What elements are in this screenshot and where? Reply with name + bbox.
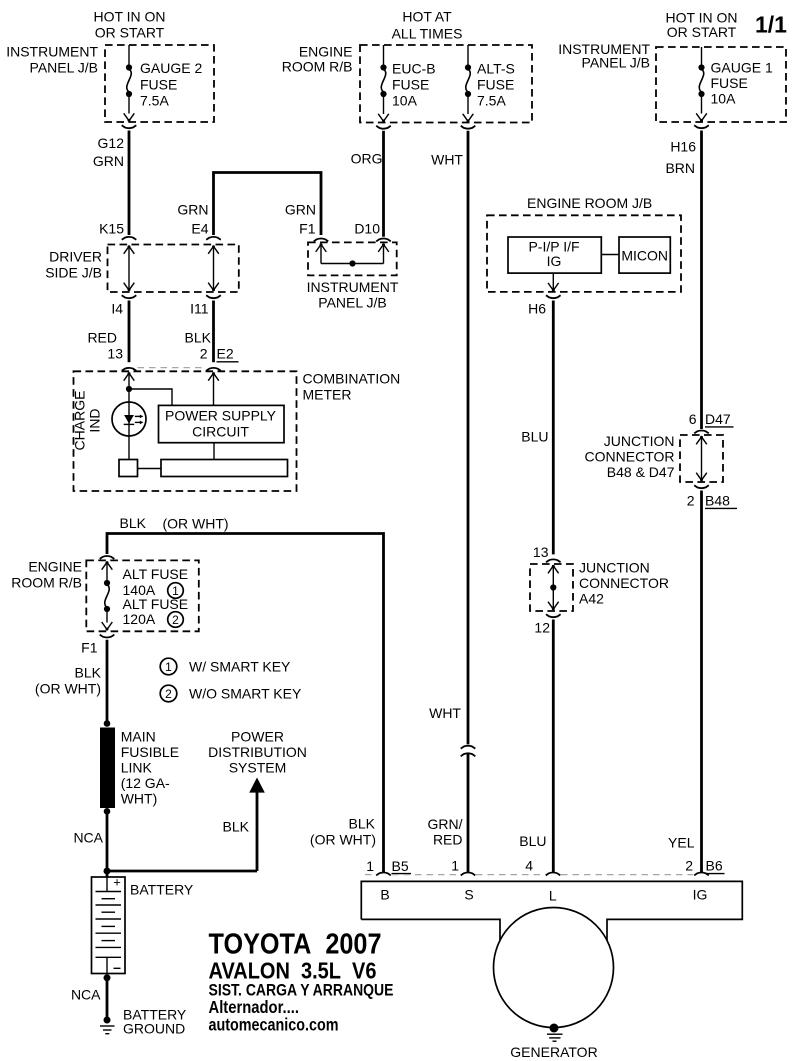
svg-text:LINK: LINK: [121, 760, 153, 776]
junction block box: engine room R/B (lower): [86, 560, 199, 631]
inline connector break on WHT wire: [461, 746, 476, 757]
label BATTERY GROUND: [123, 1007, 187, 1037]
label ENGINE ROOM R/B (lower): [11, 559, 82, 591]
junction block box: instrument panel J/B (top right): [656, 47, 786, 122]
generator body circle: [494, 908, 614, 1028]
wire P-I/P out with arrow: [548, 273, 559, 291]
svg-text:DISTRIBUTION: DISTRIBUTION: [208, 744, 307, 760]
svg-text:F1: F1: [81, 640, 98, 656]
arrow into meter pin13: [124, 372, 135, 381]
svg-text:JUNCTION: JUNCTION: [579, 560, 650, 576]
connector K15: [122, 237, 137, 240]
fuse ALT 140A/120A: [104, 566, 188, 627]
internal wire B48-D47: [696, 436, 707, 482]
battery: [92, 875, 126, 974]
fuse GAUGE 2 7.5A: [126, 45, 203, 114]
svg-text:ROOM R/B: ROOM R/B: [11, 575, 82, 591]
svg-text:GRN: GRN: [285, 202, 316, 218]
connector strip (gray dashed) on generator: [365, 874, 693, 876]
svg-text:B48: B48: [705, 493, 730, 509]
svg-text:S: S: [464, 887, 473, 903]
svg-text:FUSE: FUSE: [477, 77, 514, 93]
svg-text:OR START: OR START: [95, 25, 165, 41]
svg-text:2: 2: [165, 687, 172, 701]
svg-text:IG: IG: [693, 887, 708, 903]
charge indicator lamp circle: [112, 402, 146, 436]
wire I11 to combination meter: [212, 301, 215, 363]
label INSTRUMENT PANEL J/B (middle): [307, 279, 399, 311]
svg-text:ORG: ORG: [351, 151, 383, 167]
box MICON: [619, 237, 670, 273]
svg-text:GROUND: GROUND: [123, 1021, 185, 1037]
main fusible link (black bar): [100, 728, 115, 809]
generator ground symbol: [547, 1034, 563, 1041]
label INSTRUMENT PANEL J/B (top right): [558, 41, 650, 71]
svg-text:ENGINE: ENGINE: [299, 44, 353, 60]
svg-text:RED: RED: [87, 330, 117, 346]
svg-text:B6: B6: [706, 858, 723, 874]
connector D10: [376, 239, 391, 242]
svg-text:ALT-S: ALT-S: [477, 61, 515, 77]
svg-text:GRN: GRN: [177, 202, 208, 218]
svg-text:H16: H16: [670, 139, 696, 155]
svg-text:12: 12: [534, 620, 550, 636]
svg-text:NCA: NCA: [73, 830, 103, 846]
svg-text:WHT): WHT): [121, 791, 158, 807]
svg-text:IG: IG: [547, 253, 562, 269]
svg-text:RED: RED: [433, 832, 463, 848]
wire pin13 to charge lamp: [128, 373, 130, 402]
svg-text:ALL TIMES: ALL TIMES: [392, 26, 463, 42]
svg-text:W/O SMART KEY: W/O SMART KEY: [189, 686, 302, 702]
connector strip (gray dashed): [138, 367, 207, 369]
label BLK (OR WHT) lower: [35, 665, 102, 697]
svg-text:10A: 10A: [711, 91, 737, 107]
connector dome D47: [694, 431, 709, 434]
wire fusible link to battery: [106, 811, 109, 877]
svg-text:FUSIBLE: FUSIBLE: [121, 744, 179, 760]
wire branch to power supply circuit: [129, 389, 172, 405]
label GRN/ RED at S terminal: [428, 816, 463, 848]
wire I4 to combination meter: [128, 301, 131, 363]
battery ground symbol: [100, 1017, 115, 1034]
connector bowl A42 bottom: [546, 614, 561, 617]
internal wire A42: [548, 565, 559, 611]
connector below EUC-B: [376, 126, 391, 129]
arrow into meter pin2: [208, 372, 219, 381]
svg-text:A42: A42: [579, 591, 604, 607]
svg-text:7.5A: 7.5A: [140, 93, 169, 109]
wire BLK/WHT bus from ALT fuse to B terminal: [107, 534, 384, 873]
wire lamp to small box: [128, 436, 130, 460]
svg-text:ENGINE: ENGINE: [28, 559, 82, 575]
label B48: [705, 493, 737, 509]
arrow out EUC-B: [378, 114, 389, 123]
svg-text:13: 13: [107, 346, 123, 362]
svg-text:GAUGE 1: GAUGE 1: [711, 60, 773, 76]
svg-text:B: B: [380, 887, 389, 903]
svg-text:FUSE: FUSE: [392, 77, 429, 93]
wire GRN/RED to S: [467, 753, 470, 873]
connector F1: [314, 239, 329, 242]
wire YEL to IG: [700, 491, 703, 873]
svg-text:BRN: BRN: [665, 160, 695, 176]
svg-text:JUNCTION: JUNCTION: [604, 433, 675, 449]
connector dome IG: [694, 873, 709, 876]
junction block box: driver side J/B: [108, 245, 239, 293]
connector F1 (lower): [100, 635, 115, 638]
junction block box: instrument panel J/B (top left): [105, 45, 214, 122]
connector dome B: [376, 873, 391, 876]
label CHARGE IND (rotated): [72, 391, 103, 451]
svg-text:INSTRUMENT: INSTRUMENT: [6, 44, 98, 60]
svg-text:TOYOTA 2007: TOYOTA 2007: [209, 929, 382, 961]
svg-text:PANEL J/B: PANEL J/B: [318, 295, 386, 311]
wire psc to long box: [213, 443, 215, 460]
svg-text:2: 2: [687, 493, 695, 509]
internal wire E4-I11: [208, 245, 219, 291]
svg-text:13: 13: [533, 544, 549, 560]
svg-text:WHT: WHT: [429, 705, 461, 721]
svg-text:GAUGE 2: GAUGE 2: [140, 60, 202, 76]
arrow out of gauge2 fuse box: [124, 113, 135, 122]
svg-text:1: 1: [366, 858, 374, 874]
label COMBINATION METER: [303, 371, 401, 403]
svg-text:D47: D47: [705, 411, 731, 427]
svg-text:(12 GA-: (12 GA-: [121, 775, 170, 791]
connector I4: [122, 295, 137, 298]
svg-text:EUC-B: EUC-B: [392, 61, 436, 77]
wire WHT down (upper): [467, 131, 470, 745]
wire E4 to F1 (green link): [214, 173, 322, 236]
label JUNCTION CONNECTOR B48 & D47: [585, 433, 675, 480]
svg-text:METER: METER: [303, 387, 352, 403]
note: circled 2 W/O SMART KEY: [160, 685, 302, 702]
junction connector B48 D47 box: [680, 435, 723, 482]
label MAIN FUSIBLE LINK: [121, 729, 179, 807]
label HOT AT ALL TIMES: [392, 9, 463, 42]
svg-text:YEL: YEL: [668, 835, 695, 851]
svg-text:INSTRUMENT: INSTRUMENT: [307, 279, 399, 295]
svg-text:GRN/: GRN/: [428, 816, 463, 832]
svg-text:F1: F1: [299, 221, 316, 237]
internal stub: [106, 562, 108, 583]
LED symbol inside lamp: [124, 402, 144, 436]
svg-text:6: 6: [689, 411, 697, 427]
box P-I/P I/F IG: [508, 237, 601, 273]
svg-text:automecanico.com: automecanico.com: [209, 1015, 339, 1035]
svg-text:ALT FUSE: ALT FUSE: [123, 566, 189, 582]
arrow into ALT fuse: [102, 561, 113, 570]
label JUNCTION CONNECTOR A42: [579, 560, 669, 607]
note: circled 1 W/ SMART KEY: [160, 658, 291, 675]
svg-text:GRN: GRN: [93, 153, 124, 169]
svg-text:E4: E4: [191, 221, 208, 237]
wire BLU lower: [552, 620, 555, 873]
label HOT IN ON OR START (top left): [93, 9, 165, 41]
svg-text:FUSE: FUSE: [140, 77, 177, 93]
svg-text:OR START: OR START: [667, 24, 737, 40]
label connector E2: [217, 346, 239, 362]
svg-text:POWER SUPPLY: POWER SUPPLY: [165, 407, 277, 423]
connector dome pin2: [206, 368, 221, 371]
svg-text:1: 1: [172, 584, 179, 598]
svg-text:AVALON 3.5L V6: AVALON 3.5L V6: [209, 958, 377, 984]
label BLK (OR WHT) bus: [120, 515, 229, 532]
junction block box: instrument panel J/B (middle): [308, 242, 397, 275]
svg-text:2: 2: [172, 613, 179, 627]
circled 1 (fuse option): [168, 583, 184, 599]
label POWER DISTRIBUTION SYSTEM: [208, 729, 307, 776]
connector dome into engine room R/B: [100, 556, 115, 559]
svg-text:ENGINE ROOM J/B: ENGINE ROOM J/B: [527, 195, 652, 211]
svg-text:E2: E2: [217, 346, 234, 362]
svg-text:G12: G12: [98, 135, 125, 151]
svg-text:CIRCUIT: CIRCUIT: [192, 423, 249, 439]
wire G12 to K15: [128, 131, 131, 236]
arrow out of ALT fuse: [102, 622, 113, 631]
svg-text:CONNECTOR: CONNECTOR: [585, 449, 675, 465]
svg-text:(OR WHT): (OR WHT): [35, 681, 101, 697]
svg-text:BLK: BLK: [120, 515, 147, 531]
svg-text:(OR WHT): (OR WHT): [163, 516, 229, 532]
svg-text:CONNECTOR: CONNECTOR: [579, 575, 669, 591]
fuse GAUGE 1 10A: [698, 47, 773, 114]
label HOT IN ON OR START (top right): [665, 10, 737, 41]
connector G12: [122, 125, 137, 128]
svg-text:WHT: WHT: [431, 152, 463, 168]
svg-text:120A: 120A: [123, 611, 156, 627]
label BLK (OR WHT) at B terminal: [310, 816, 376, 848]
wire BLU from H6: [552, 301, 555, 555]
svg-text:B48 & D47: B48 & D47: [607, 464, 675, 480]
generator terminal box: [361, 881, 742, 940]
arrow out ALT-S: [463, 114, 474, 123]
svg-text:BLU: BLU: [521, 429, 548, 445]
svg-text:PANEL J/B: PANEL J/B: [30, 60, 98, 76]
svg-text:COMBINATION: COMBINATION: [303, 371, 401, 387]
connector bowl B48: [694, 485, 709, 488]
connector dome S: [461, 873, 476, 876]
box power supply circuit: [159, 405, 285, 442]
label DRIVER SIDE J/B: [45, 249, 102, 281]
svg-text:1: 1: [165, 660, 172, 674]
svg-text:L: L: [549, 888, 557, 904]
connector I11: [206, 295, 221, 298]
fuse EUC-B 10A: [380, 45, 435, 114]
svg-text:MAIN: MAIN: [121, 729, 156, 745]
svg-text:ROOM R/B: ROOM R/B: [282, 59, 353, 75]
node dot below fusible link: [104, 808, 111, 815]
svg-text:BATTERY: BATTERY: [130, 882, 194, 898]
svg-text:I4: I4: [111, 301, 123, 317]
svg-text:BLK: BLK: [75, 665, 102, 681]
svg-text:GENERATOR: GENERATOR: [510, 1044, 597, 1060]
small internal box: [119, 460, 138, 477]
svg-text:CHARGE: CHARGE: [72, 391, 88, 451]
label B6: [706, 858, 725, 874]
svg-text:1/1: 1/1: [755, 12, 787, 38]
label INSTRUMENT PANEL J/B (top left): [6, 44, 98, 76]
junction block box: engine room R/B (top): [360, 45, 532, 123]
junction block box: engine room J/B (dashed): [487, 215, 681, 292]
junction connector A42 box: [530, 564, 573, 611]
svg-text:DRIVER: DRIVER: [49, 249, 102, 265]
svg-text:+: +: [113, 875, 121, 890]
svg-text:FUSE: FUSE: [711, 75, 748, 91]
connector below ALT-S: [461, 126, 476, 129]
node dot at battery positive: [104, 868, 111, 875]
internal wiring F1-D10: [316, 243, 389, 266]
wire F1 to fusible link: [106, 640, 109, 724]
label ENGINE ROOM R/B (top): [282, 44, 353, 75]
node dot above fusible link: [104, 720, 111, 727]
wire BRN down to D47: [700, 131, 703, 430]
svg-text:BLK: BLK: [223, 819, 250, 835]
connector H16: [694, 125, 709, 128]
wire battery to ground: [106, 978, 109, 1017]
svg-text:MICON: MICON: [621, 248, 668, 264]
svg-text:(OR WHT): (OR WHT): [310, 832, 376, 848]
svg-text:2: 2: [685, 858, 693, 874]
svg-text:7.5A: 7.5A: [477, 93, 506, 109]
node dot at battery negative: [104, 974, 111, 981]
svg-text:SIDE J/B: SIDE J/B: [45, 265, 102, 281]
svg-text:4: 4: [525, 858, 533, 874]
svg-text:B5: B5: [392, 858, 409, 874]
connector dome pin13: [122, 368, 137, 371]
svg-text:POWER: POWER: [231, 729, 284, 745]
wire P-I/P to MICON: [601, 254, 619, 256]
node: junction dot above charge lamp: [126, 386, 132, 392]
circled 2 (fuse option): [168, 612, 184, 628]
fuse ALT-S 7.5A: [465, 45, 515, 114]
connector dome L: [546, 873, 561, 876]
label B5: [392, 858, 412, 874]
svg-text:IND: IND: [87, 408, 103, 432]
svg-text:HOT AT: HOT AT: [402, 9, 452, 25]
svg-text:D10: D10: [354, 221, 380, 237]
svg-text:K15: K15: [99, 221, 124, 237]
svg-text:H6: H6: [528, 301, 546, 317]
connector E4: [206, 237, 221, 240]
svg-text:SYSTEM: SYSTEM: [229, 760, 287, 776]
svg-text:BLK: BLK: [349, 816, 376, 832]
arrow to power distribution system: [107, 778, 265, 872]
wire pin2 to power supply circuit: [213, 373, 215, 405]
svg-text:I11: I11: [190, 301, 209, 317]
svg-text:BLU: BLU: [519, 833, 546, 849]
wire small box to long box: [138, 468, 162, 470]
component box: combination meter (dashed): [74, 371, 297, 491]
svg-text:W/ SMART KEY: W/ SMART KEY: [189, 659, 291, 675]
wire ORG to D10: [382, 131, 385, 237]
connector dome A42 top: [546, 559, 561, 562]
svg-text:10A: 10A: [392, 93, 418, 109]
svg-text:PANEL J/B: PANEL J/B: [582, 55, 650, 71]
arrow out gauge1: [696, 113, 707, 122]
svg-text:1: 1: [451, 858, 459, 874]
svg-text:BLK: BLK: [185, 330, 212, 346]
label D47: [705, 411, 734, 427]
node dot generator ground: [550, 1024, 559, 1033]
svg-text:NCA: NCA: [71, 987, 101, 1003]
long internal box: [161, 460, 288, 477]
connector H6: [546, 295, 561, 298]
svg-text:2: 2: [200, 346, 208, 362]
internal wire K15-I4: [124, 245, 135, 291]
svg-text:HOT IN ON: HOT IN ON: [93, 9, 165, 25]
